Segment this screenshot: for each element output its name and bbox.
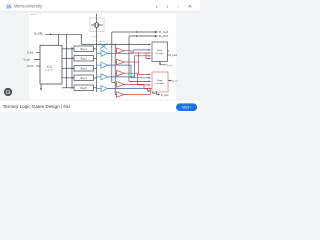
svg-text:B_AUX: B_AUX [159, 34, 168, 38]
comparator D2 [115, 61, 116, 63]
svg-text:›: › [166, 4, 168, 11]
svg-text:E_ok: E_ok [167, 65, 173, 67]
svg-text:A_in2: A_in2 [172, 80, 178, 83]
comparator D3 [115, 72, 116, 74]
svg-text:Visit ›: Visit › [182, 106, 192, 110]
svg-text:tri-state: tri-state [92, 35, 98, 38]
buffer U3 [97, 64, 102, 66]
wire IC to Reg2 [62, 57, 74, 59]
wire encoder output [168, 51, 170, 55]
wire IC to Reg5 [62, 87, 74, 89]
wire blue U4 to encoder [108, 56, 151, 77]
note canvas corner [30, 14, 39, 16]
svg-text:Microuniversity: Microuniversity [14, 4, 43, 9]
wire blue U5 to decoder [108, 89, 151, 91]
svg-text:✕: ✕ [188, 4, 192, 10]
white schematic canvas [29, 14, 176, 101]
svg-text:mode dec: mode dec [45, 70, 53, 72]
wire arrowhead [50, 33, 52, 35]
wire Reg3 output [94, 67, 97, 69]
comparator D5 [115, 94, 116, 96]
wire blue U2 to encoder [108, 49, 151, 92]
wire Reg4 output [94, 77, 97, 79]
wire Reg5 output [94, 87, 97, 89]
wire vertical bus x96.5 [96, 32, 98, 93]
wire red D2 cross link [124, 61, 138, 63]
switch S1 cross symbol [100, 43, 108, 49]
node R_AUX label [159, 30, 168, 34]
pin A_in0 [36, 52, 40, 54]
wire IC to Reg4 [62, 77, 74, 79]
wire red D1 to encoder [124, 51, 150, 53]
svg-text:Stage: Stage [157, 79, 163, 82]
svg-text:Encoder: Encoder [156, 52, 164, 55]
wire vertical bus x111.8 [112, 32, 115, 83]
svg-text:Reg 4: Reg 4 [81, 78, 88, 80]
wire red D5 to decoder [124, 88, 152, 94]
wire red branch to decoder pin1 [139, 53, 151, 74]
pin V_ctrl [34, 59, 41, 61]
svg-text:‹: ‹ [156, 4, 158, 11]
wire main horizontal y44.4 into encoder [97, 43, 151, 45]
svg-text:Reg 2: Reg 2 [81, 59, 88, 61]
svg-text:mux sel: mux sel [99, 41, 106, 43]
wire top aux 1 [112, 31, 158, 33]
wire B_SEL vertical bus [66, 34, 68, 88]
wire encoder bottom output [160, 62, 167, 65]
wire decoder right output [168, 80, 170, 82]
transistor Q1 [94, 23, 99, 28]
register Reg2 [74, 56, 94, 62]
register Reg5 [74, 85, 94, 91]
svg-text:Decoder: Decoder [156, 82, 165, 85]
visit button [176, 103, 197, 111]
wire branch into IC top [58, 34, 60, 45]
help FAB button [4, 88, 12, 96]
wire Reg2 output [94, 57, 97, 59]
wire IC to Reg3 [62, 67, 74, 69]
svg-text:CLK2: CLK2 [27, 65, 34, 68]
page background [0, 0, 200, 112]
IC U1 mode decoder box [40, 45, 62, 84]
svg-text:A_in0: A_in0 [27, 52, 34, 55]
svg-text:A_out1: A_out1 [170, 54, 178, 57]
svg-text:IC-01: IC-01 [47, 67, 53, 69]
node B_AUX label [159, 34, 168, 38]
svg-text:mdl v0.2: mdl v0.2 [30, 14, 39, 16]
wire top aux 2 [129, 35, 158, 37]
comparator D4 [115, 83, 116, 85]
wire corner to main row [81, 34, 96, 44]
transistor Q1 dashed enclosure [90, 18, 104, 32]
buffer U5 [97, 88, 102, 90]
wire Reg1 output [94, 48, 97, 50]
wire into decoder dark pin [129, 80, 151, 82]
comparator D1 (red) [115, 48, 152, 97]
wire decoder bottom output [153, 91, 158, 94]
buffer U2 (blue) [97, 50, 108, 91]
wire vertical x129 [128, 36, 130, 81]
wire vertical bus x115.2 [114, 44, 116, 94]
encoder U6 box [152, 42, 178, 97]
svg-text:V_ctrl: V_ctrl [24, 59, 31, 62]
bottom bar [0, 100, 200, 112]
junction dot [96, 44, 97, 45]
buffer U4 [97, 76, 102, 78]
pin bottom stub [40, 84, 42, 89]
wire red D4 to decoder [124, 84, 150, 88]
pin CLK2 [36, 65, 40, 67]
svg-text:Ternary Logic Gates Design | N: Ternary Logic Gates Design | NU [3, 104, 70, 109]
register Reg1 [74, 46, 94, 52]
svg-text:B_SEL: B_SEL [35, 32, 44, 36]
favicon [6, 4, 12, 9]
node B_SEL label [35, 32, 44, 36]
wire vertical bus x72 [71, 47, 73, 88]
svg-text:Reg 5: Reg 5 [81, 88, 88, 90]
svg-text:Stage: Stage [157, 49, 163, 52]
svg-text:Reg 3: Reg 3 [81, 69, 88, 71]
wire blue U3 to decoder [108, 65, 151, 78]
svg-text:↑: ↑ [177, 5, 179, 10]
svg-text:Reg 1: Reg 1 [81, 49, 88, 51]
wire B_SEL horizontal [45, 33, 81, 35]
register Reg4 [74, 75, 94, 81]
decoder U7 box (selected, red outline) [152, 72, 168, 92]
browser top bar [0, 0, 200, 12]
wire IC to Reg1 [62, 48, 74, 50]
wire red D3 to decoder [124, 73, 150, 85]
wire red branch to encoder pin5 [146, 53, 151, 59]
svg-text:B_out1: B_out1 [161, 94, 169, 97]
register Reg3 [74, 66, 94, 72]
